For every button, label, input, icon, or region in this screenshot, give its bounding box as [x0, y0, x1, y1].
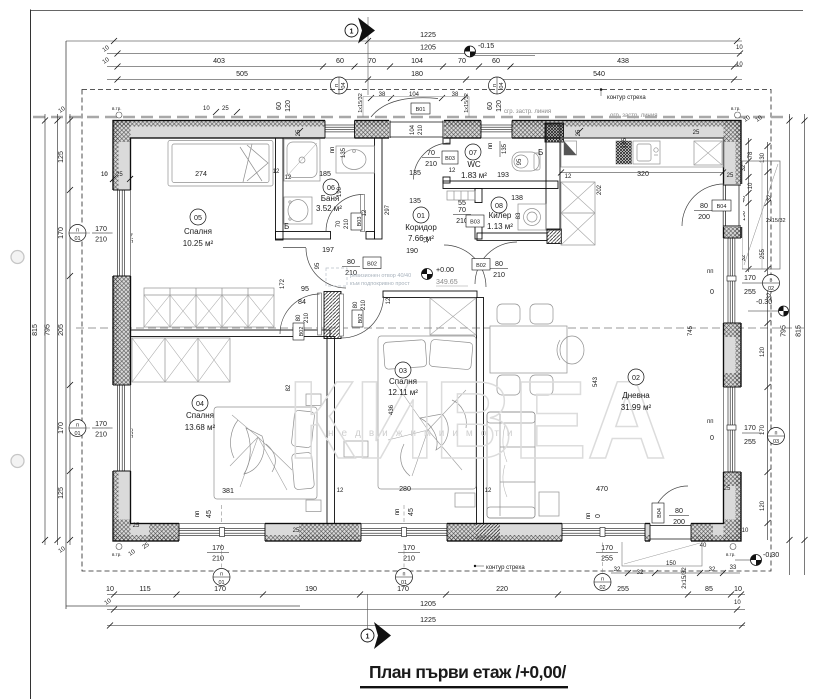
svg-text:пп: пп — [707, 419, 714, 425]
svg-text:в.тр.: в.тр. — [112, 106, 121, 111]
north arrow top: circle 1 with black pennant — [345, 17, 375, 95]
svg-text:в.тр.: в.тр. — [731, 106, 740, 111]
kitchen dim line 320 — [561, 172, 723, 174]
svg-text:120: 120 — [760, 500, 766, 511]
svg-text:190: 190 — [337, 186, 343, 197]
wardrobe room05 — [144, 288, 274, 327]
svg-text:1225: 1225 — [420, 616, 436, 624]
revision hatch note — [326, 268, 411, 287]
svg-text:130: 130 — [760, 152, 766, 163]
svg-text:10: 10 — [748, 182, 754, 189]
shower bath — [284, 139, 320, 181]
exterior wall masonry bands — [113, 121, 741, 542]
left dim column segments 125/170/205/170/125 — [57, 106, 73, 555]
svg-text:към подпокривно прост: към подпокривно прост — [350, 281, 410, 287]
svg-text:202: 202 — [597, 184, 603, 195]
svg-text:33: 33 — [730, 565, 737, 571]
right window marker v02 — [707, 269, 780, 296]
svg-text:12.11 м²: 12.11 м² — [388, 388, 418, 397]
svg-text:Б: Б — [284, 222, 289, 231]
svg-text:210: 210 — [304, 312, 310, 323]
svg-text:795: 795 — [780, 325, 788, 337]
svg-text:31.99 м²: 31.99 м² — [621, 403, 652, 412]
svg-text:08: 08 — [495, 202, 503, 210]
svg-text:80: 80 — [347, 258, 355, 266]
svg-text:10: 10 — [734, 600, 741, 606]
window top T2 (wc) — [481, 120, 512, 140]
svg-text:04: 04 — [499, 82, 505, 88]
left dim column 815 — [31, 114, 48, 545]
svg-text:170: 170 — [212, 544, 224, 552]
svg-text:95: 95 — [517, 158, 523, 165]
svg-text:0: 0 — [594, 514, 602, 518]
kitchen counter — [561, 138, 724, 167]
svg-text:01: 01 — [74, 236, 80, 242]
svg-text:12: 12 — [485, 488, 492, 494]
svg-text:55: 55 — [458, 199, 466, 207]
svg-text:60: 60 — [336, 57, 344, 65]
svg-text:н е д в и ж и м и и м о т и: н е д в и ж и м и и м о т и — [328, 428, 515, 439]
level marker -0.30 right — [748, 298, 789, 316]
svg-text:07: 07 — [469, 149, 477, 157]
svg-text:12: 12 — [424, 236, 430, 243]
svg-text:210: 210 — [418, 124, 424, 135]
svg-text:03: 03 — [399, 367, 407, 375]
svg-text:45: 45 — [205, 510, 213, 518]
bottom wall hatch blocks — [149, 524, 713, 542]
svg-text:210: 210 — [425, 160, 437, 168]
axis marker circle p04 — [331, 77, 348, 94]
right window R1 (living) — [723, 238, 743, 323]
wall thickness callout 10|25 top-left — [203, 106, 240, 115]
bottom window W2 (room03) — [361, 523, 447, 543]
svg-text:115: 115 — [139, 585, 150, 593]
svg-text:172: 172 — [280, 278, 286, 289]
wall thickness callout 10|25 left mid — [101, 172, 133, 182]
svg-text:7.66 м²: 7.66 м² — [408, 234, 434, 243]
svg-text:1205: 1205 — [420, 600, 436, 608]
svg-text:ревизионен отвор 40/40: ревизионен отвор 40/40 — [350, 273, 411, 279]
thick gray dashed building-limit line top — [33, 116, 790, 119]
svg-text:0: 0 — [710, 434, 714, 442]
room 04 label — [185, 395, 216, 432]
svg-text:25: 25 — [133, 523, 140, 529]
svg-text:12: 12 — [273, 169, 280, 175]
svg-text:70: 70 — [458, 57, 466, 65]
svg-text:25: 25 — [116, 172, 123, 178]
svg-text:120: 120 — [495, 100, 503, 112]
frame line top — [31, 10, 804, 12]
svg-text:104: 104 — [410, 124, 416, 135]
corner hatch blocks — [113, 121, 741, 542]
svg-text:170: 170 — [57, 227, 65, 239]
north arrow bottom: circle 1 with black pennant — [361, 594, 391, 649]
nightstand room04 bottom — [306, 500, 321, 512]
door label B02 room05 — [342, 257, 381, 277]
entrance door opening B01 — [363, 97, 469, 140]
interior wall room05|room04 — [131, 330, 331, 337]
window left A (room05) — [112, 190, 132, 276]
svg-text:01: 01 — [417, 212, 425, 220]
wall thickness callout overlay left mid — [101, 172, 133, 182]
bottom window annotation 170/210 (room04 window) — [195, 505, 229, 568]
interior wall bath bottom — [276, 232, 331, 240]
svg-text:Б: Б — [538, 148, 543, 157]
svg-text:120: 120 — [760, 346, 766, 357]
svg-text:170: 170 — [95, 225, 107, 233]
eave contour label bottom — [474, 565, 526, 571]
svg-text:255: 255 — [760, 248, 766, 259]
svg-text:12: 12 — [337, 488, 344, 494]
svg-text:403: 403 — [213, 57, 225, 65]
svg-text:Коридор: Коридор — [405, 223, 437, 232]
level marker +0.00 corridor — [422, 266, 469, 286]
svg-text:190: 190 — [305, 585, 317, 593]
interior wall corridor|living — [546, 124, 560, 230]
frame line inner vertical — [65, 41, 67, 609]
window left B (room04) — [112, 385, 132, 471]
right dim column 795 — [780, 114, 793, 575]
punch hole bottom — [11, 455, 24, 468]
svg-text:138: 138 — [511, 194, 523, 202]
svg-text:170: 170 — [744, 274, 756, 282]
svg-text:12: 12 — [386, 297, 392, 304]
svg-text:320: 320 — [637, 170, 649, 178]
left window marker p01 (top) — [69, 225, 135, 246]
svg-text:135: 135 — [409, 197, 421, 205]
right dim chain (porch segments) — [741, 138, 754, 272]
svg-text:-0.15: -0.15 — [478, 42, 494, 50]
svg-text:в: в — [770, 278, 773, 284]
svg-text:95: 95 — [301, 285, 309, 293]
bottom dimension row 2 (1205) — [104, 598, 745, 613]
svg-text:78: 78 — [748, 151, 754, 158]
svg-text:200: 200 — [698, 213, 710, 221]
svg-text:контур стреха: контур стреха — [486, 565, 525, 571]
door label B02 corridor-living — [472, 259, 508, 280]
level marker -0.15 — [465, 42, 536, 57]
corner column (dark hatch) — [545, 123, 564, 142]
door label B03 bath — [336, 213, 363, 230]
svg-text:пп: пп — [195, 511, 201, 518]
left window marker p01 (bottom) — [69, 420, 135, 441]
interior wall bath bottom stub right — [366, 232, 375, 240]
right wall small hatch caps — [724, 219, 742, 486]
svg-text:82: 82 — [286, 384, 292, 391]
svg-text:B03: B03 — [357, 217, 363, 227]
svg-text:1.13 м²: 1.13 м² — [487, 222, 513, 231]
interior wall room05|hall — [276, 138, 284, 240]
svg-text:сгр. застр. линия: сгр. застр. линия — [504, 109, 551, 115]
svg-text:10: 10 — [736, 62, 743, 68]
svg-text:B02: B02 — [358, 314, 364, 324]
right window marker p03 — [707, 419, 785, 446]
svg-text:B02: B02 — [367, 262, 377, 268]
svg-text:85: 85 — [705, 585, 713, 593]
svg-text:B04: B04 — [657, 508, 663, 518]
right dim column 815 — [743, 114, 808, 575]
svg-text:25: 25 — [693, 130, 700, 136]
nightstand room04 top — [306, 394, 321, 406]
svg-text:12: 12 — [285, 175, 292, 181]
interior wall room03 top — [383, 291, 477, 298]
svg-text:210: 210 — [95, 236, 107, 244]
svg-text:185: 185 — [319, 170, 331, 178]
frame line left — [30, 10, 32, 699]
svg-text:205: 205 — [57, 324, 65, 336]
tall cabinet living (x-crossed) — [561, 182, 595, 245]
left dim column 795 — [44, 114, 61, 545]
svg-text:210: 210 — [361, 299, 367, 310]
svg-text:п: п — [775, 431, 778, 437]
svg-text:0: 0 — [710, 288, 714, 296]
svg-text:02: 02 — [768, 286, 774, 292]
svg-text:3.52 м²: 3.52 м² — [316, 204, 342, 213]
svg-text:05: 05 — [194, 214, 202, 222]
door arc killer B03 — [444, 245, 486, 287]
svg-text:1205: 1205 — [420, 44, 436, 52]
cabinet room03 top (x-crossed) — [430, 298, 476, 335]
svg-text:470: 470 — [596, 485, 608, 493]
svg-text:543: 543 — [593, 376, 599, 387]
window top T1 (bath) — [325, 120, 355, 140]
right window R2 (living lower) — [723, 387, 743, 472]
svg-text:B01: B01 — [416, 107, 426, 113]
svg-text:795: 795 — [44, 324, 52, 336]
svg-text:25: 25 — [727, 173, 734, 179]
svg-text:70: 70 — [368, 57, 376, 65]
axis marker circle chp04 — [489, 77, 506, 94]
exterior wall outer insulation hatch bands — [113, 121, 741, 542]
room 08 killer label — [487, 197, 513, 231]
svg-text:02: 02 — [632, 374, 640, 382]
svg-text:190: 190 — [406, 247, 418, 255]
svg-text:170: 170 — [403, 544, 415, 552]
top dimension row 2 (1205) — [102, 44, 744, 69]
dashed eave contour rectangle — [82, 90, 771, 572]
svg-text:438: 438 — [617, 57, 629, 65]
svg-text:200: 200 — [673, 518, 685, 526]
svg-text:10: 10 — [203, 106, 210, 112]
svg-text:п: п — [76, 228, 79, 234]
bottom dimension row 3 (1225) — [107, 616, 745, 629]
svg-text:210: 210 — [493, 271, 505, 279]
svg-text:135: 135 — [341, 147, 347, 158]
right exterior porch with steps — [742, 161, 786, 269]
door label B03 killer — [453, 206, 484, 227]
svg-text:п: п — [76, 423, 79, 429]
svg-text:12: 12 — [565, 174, 572, 180]
svg-text:1: 1 — [366, 633, 370, 641]
svg-text:197: 197 — [322, 246, 334, 254]
svg-text:25: 25 — [222, 106, 229, 112]
svg-text:B03: B03 — [470, 220, 480, 226]
washing machine killer — [518, 204, 546, 230]
sofa living — [487, 412, 535, 518]
interior wall killer left stubs — [475, 189, 482, 203]
svg-text:255: 255 — [617, 585, 629, 593]
svg-text:255: 255 — [744, 288, 756, 296]
door room03: leaf and arc — [340, 294, 344, 336]
svg-text:80: 80 — [675, 507, 683, 515]
bath vanity — [284, 197, 312, 224]
svg-text:+0.00: +0.00 — [436, 266, 454, 274]
chimney killer corner — [547, 229, 562, 244]
top small dims row (38 104 38) — [368, 92, 467, 101]
svg-text:10: 10 — [736, 45, 743, 51]
svg-text:КИВЕА: КИВЕА — [288, 359, 666, 482]
svg-text:135: 135 — [409, 169, 421, 177]
svg-text:10: 10 — [101, 172, 108, 178]
svg-text:95: 95 — [315, 262, 321, 269]
svg-text:104: 104 — [409, 92, 420, 98]
svg-text:170: 170 — [95, 420, 107, 428]
svg-text:2x15/32: 2x15/32 — [766, 218, 786, 224]
title: Plan parvi etazh — [360, 662, 568, 688]
svg-text:25: 25 — [724, 486, 731, 492]
svg-text:38: 38 — [379, 92, 386, 98]
svg-text:193: 193 — [497, 171, 509, 179]
svg-text:60: 60 — [275, 102, 283, 110]
svg-text:10: 10 — [742, 528, 749, 534]
svg-text:104: 104 — [411, 57, 423, 65]
svg-text:32: 32 — [614, 567, 621, 573]
svg-text:пп: пп — [707, 269, 714, 275]
svg-text:04: 04 — [196, 400, 204, 408]
svg-text:436: 436 — [389, 404, 395, 415]
frame line inner bottom — [66, 605, 300, 607]
svg-text:220: 220 — [496, 585, 508, 593]
svg-text:120: 120 — [284, 100, 292, 112]
svg-text:04: 04 — [341, 82, 347, 88]
right side door opening B04 — [682, 184, 743, 227]
svg-text:505: 505 — [236, 70, 248, 78]
svg-text:06: 06 — [327, 184, 335, 192]
svg-text:пп: пп — [488, 143, 494, 150]
svg-text:180: 180 — [411, 70, 423, 78]
exterior wall outlines — [113, 121, 741, 542]
bottom axis marker circle p02 (right) — [594, 574, 611, 592]
svg-text:п: п — [403, 572, 406, 578]
svg-text:1225: 1225 — [420, 31, 436, 39]
svg-text:-0.30: -0.30 — [756, 298, 772, 306]
svg-text:60: 60 — [492, 57, 500, 65]
room 01 corridor label — [405, 207, 437, 243]
interior wall room04|room03 — [327, 337, 335, 524]
v.tr. markers — [112, 106, 741, 557]
interior wall room03|living — [477, 298, 484, 524]
svg-text:12: 12 — [362, 209, 368, 216]
svg-text:40: 40 — [700, 543, 707, 549]
door label B02 room03 — [352, 299, 367, 327]
bottom window annotation 170/210 (room03 window) — [395, 505, 420, 568]
svg-text:80: 80 — [700, 202, 708, 210]
top wall piers hatch — [355, 121, 547, 139]
svg-text:210: 210 — [403, 555, 415, 563]
wall thickness callout 10|25 bottom-left — [128, 542, 151, 558]
small shelf room03 — [344, 441, 368, 457]
svg-text:10.25 м²: 10.25 м² — [183, 239, 214, 248]
svg-text:13.68 м²: 13.68 м² — [185, 423, 216, 432]
right dim chain 2 (130 32 255 32) — [760, 142, 773, 540]
svg-text:349.65: 349.65 — [436, 278, 458, 286]
door arc corridor-living B02 — [475, 242, 517, 284]
bottom window W1 (room04) — [179, 523, 265, 543]
window axis dash left windows — [86, 232, 113, 234]
top dimension row 4 (505 180 540) — [107, 70, 742, 83]
svg-text:в.тр.: в.тр. — [112, 552, 121, 557]
svg-text:70: 70 — [336, 220, 342, 227]
top dimension row 1 (1225) — [66, 31, 743, 54]
dining table living — [490, 304, 584, 395]
room 02 living label — [621, 369, 652, 412]
bottom axis marker circle p01 (left) — [213, 569, 230, 587]
door room04: leaf and arc — [318, 293, 322, 335]
svg-text:пп: пп — [586, 513, 592, 520]
svg-text:815: 815 — [795, 325, 803, 337]
svg-text:03: 03 — [773, 439, 779, 445]
wc toilet — [512, 152, 540, 171]
svg-text:-0.30: -0.30 — [763, 551, 779, 559]
svg-text:в.тр.: в.тр. — [726, 552, 735, 557]
svg-text:контур стреха: контур стреха — [607, 95, 646, 101]
svg-text:210: 210 — [344, 218, 350, 229]
svg-text:210: 210 — [212, 555, 224, 563]
svg-text:Дневна: Дневна — [622, 391, 650, 400]
interior wall wc bottom — [443, 181, 558, 189]
svg-text:38: 38 — [452, 92, 459, 98]
bottom window W3 (living room) — [562, 523, 645, 543]
wardrobe room04 — [132, 338, 230, 382]
svg-text:170: 170 — [760, 424, 766, 435]
svg-text:10: 10 — [106, 585, 114, 593]
level marker -0.30 bottom right — [735, 551, 779, 566]
svg-text:1: 1 — [350, 28, 354, 36]
eave contour label top — [600, 88, 647, 101]
svg-text:170: 170 — [57, 422, 65, 434]
svg-text:25: 25 — [293, 528, 300, 534]
svg-text:170: 170 — [601, 544, 613, 552]
svg-text:745: 745 — [688, 325, 694, 336]
bath sink — [336, 146, 375, 173]
svg-text:84: 84 — [298, 298, 306, 306]
bottom window annotation 170/255 (livingroom window) — [586, 513, 618, 575]
svg-text:п: п — [492, 84, 498, 87]
svg-text:32: 32 — [767, 194, 773, 201]
bottom axis marker circle p01 (mid) — [396, 569, 413, 587]
door label B02 room04 — [293, 312, 310, 340]
interior wall killer bottom — [477, 233, 547, 241]
killer shelf — [447, 191, 475, 200]
room 07 wc label — [461, 144, 487, 180]
door label B03 wc — [422, 149, 458, 168]
interior wall bath|corridor — [375, 138, 383, 239]
svg-text:125: 125 — [57, 151, 65, 163]
svg-text:170: 170 — [397, 585, 409, 593]
svg-text:170: 170 — [744, 424, 756, 432]
svg-text:п: п — [601, 577, 604, 583]
left wall pier hatch (205 segment) — [113, 276, 131, 385]
svg-text:381: 381 — [222, 487, 234, 495]
svg-text:274: 274 — [195, 170, 207, 178]
svg-text:540: 540 — [593, 70, 605, 78]
double bed room04 — [214, 407, 317, 499]
svg-text:10: 10 — [734, 585, 742, 593]
door arc bath B03 — [326, 195, 363, 232]
interior wall wc left stubs — [443, 138, 450, 144]
svg-text:255: 255 — [744, 438, 756, 446]
svg-text:135: 135 — [622, 137, 628, 148]
